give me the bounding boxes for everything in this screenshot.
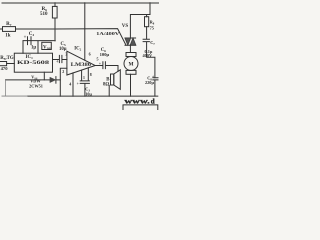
svg-text:8: 8 [90,73,92,77]
svg-text:+: + [24,35,27,40]
svg-text:d: d [151,97,155,105]
svg-text:R5,TG: R5,TG [0,56,14,61]
svg-text:M: M [128,62,133,68]
svg-text:IC2: IC2 [74,46,81,51]
svg-text:C4: C4 [29,32,35,37]
svg-text:3: 3 [65,52,67,57]
svg-text:6: 6 [89,52,91,57]
svg-text:470: 470 [1,66,9,71]
svg-text:100μ: 100μ [100,52,110,57]
svg-text:R7: R7 [6,22,12,27]
svg-text:2CW51: 2CW51 [29,83,43,88]
svg-text:10μ: 10μ [85,91,92,96]
svg-text:75: 75 [150,25,154,30]
svg-text:KD-5608: KD-5608 [17,60,50,66]
svg-text:220μ: 220μ [145,80,154,85]
svg-text:510: 510 [40,12,48,17]
svg-text:8Ω: 8Ω [103,82,109,87]
svg-text:VS: VS [122,24,129,29]
svg-text:1A/400V: 1A/400V [96,31,120,36]
svg-text:+: + [56,60,59,65]
svg-text:4: 4 [69,82,71,87]
svg-text:1k: 1k [5,34,11,39]
svg-text:2: 2 [62,69,64,74]
svg-text:1: 1 [83,76,85,80]
svg-text:LM386: LM386 [71,63,92,68]
svg-text:1μ: 1μ [31,46,36,51]
svg-text:www.: www. [124,97,150,106]
svg-text:400V: 400V [143,53,153,58]
svg-text:VDD: VDD [43,46,52,51]
